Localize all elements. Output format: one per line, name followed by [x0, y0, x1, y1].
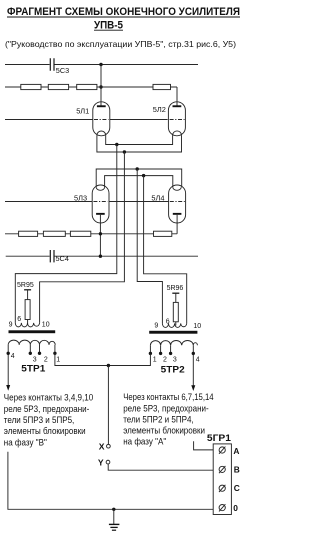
svg-text:тели 5ПР2 и 5ПР4,: тели 5ПР2 и 5ПР4, [123, 413, 194, 424]
svg-text:1: 1 [153, 357, 157, 364]
svg-text:5Л3: 5Л3 [74, 193, 87, 202]
wire v4: L4 node to 5ТР2 pin 10 [144, 176, 187, 324]
5ТР2 bottom winding [150, 340, 197, 345]
wire v3: L3 node to 5ТР2 pin 9 [137, 169, 162, 323]
capacitor C4 (5С4) [50, 250, 69, 263]
node: X tap junction [107, 364, 110, 367]
svg-text:10: 10 [42, 321, 50, 328]
5ТР2 pin 3 tap [170, 345, 172, 353]
node on L1 [123, 150, 126, 153]
wire: 5ТР1 pin1 to 5ТР2 pin1 [55, 353, 150, 365]
5ТР1 pin 4 tap [7, 345, 9, 385]
5ТР2 core [149, 331, 197, 334]
svg-text:5ТР1: 5ТР1 [21, 363, 45, 373]
svg-text:5R95: 5R95 [17, 282, 34, 289]
grid dashes inside 5Л1 [94, 119, 109, 121]
5ТР2 pin 2 tap [160, 345, 162, 353]
svg-text:реле 5Р3, предохрани-: реле 5Р3, предохрани- [123, 402, 209, 413]
node: W3b / 5Л3 anode [99, 232, 102, 235]
terminal X [99, 442, 110, 452]
svg-text:Через контакты 6,7,15,14: Через контакты 6,7,15,14 [123, 391, 213, 402]
5ТР2 pin 4 tap [192, 345, 194, 385]
resistor (W2 #3) [77, 84, 97, 89]
wire: 5Л2 anode riser [176, 87, 178, 106]
node: W1 / 5Л1 anode junction [99, 63, 102, 66]
wire: 5Л4 anode drop [176, 215, 178, 234]
resistor (W2 #1) [21, 84, 41, 89]
wire L1: 5Л1 left cathode to 5Л2 right cathode [97, 135, 182, 152]
resistor (W2 #2) [48, 84, 68, 89]
5ТР1 bottom winding [8, 340, 55, 345]
svg-text:5ГР1: 5ГР1 [207, 433, 231, 443]
wire W1 top bus [5, 64, 198, 66]
svg-text:2: 2 [163, 357, 167, 364]
wire W3b with resistors [5, 233, 177, 235]
node on L2 [115, 143, 118, 146]
svg-text:6: 6 [17, 316, 21, 323]
tube 5Л3 [74, 185, 109, 223]
wire: X feed [107, 366, 109, 445]
terminal C [219, 483, 240, 493]
svg-text:4: 4 [196, 357, 200, 364]
wire L2: 5Л1 right cathode to 5Л2 left cathode [106, 135, 173, 144]
svg-text:реле 5Р3, предохрани-: реле 5Р3, предохрани- [4, 403, 90, 414]
terminal A [219, 446, 239, 456]
wire: 5Л3 anode drop [99, 215, 101, 256]
wire: 5Л1 anode riser [100, 65, 102, 106]
title line 2 [94, 20, 123, 32]
transformer T2 (5ТР2) [149, 285, 202, 391]
resistor R95 (5R95) [24, 289, 31, 291]
svg-text:5R96: 5R96 [167, 285, 184, 292]
transformer T1 (5ТР1) [6, 282, 60, 391]
svg-text:9: 9 [9, 321, 13, 328]
node: W4 / 5Л3 anode [99, 255, 102, 258]
wire L3: 5Л3 left cathode to 5Л4 right cathode [96, 169, 182, 187]
wire L4: 5Л3 right cathode to 5Л4 left cathode [105, 176, 173, 188]
svg-text:ФРАГМЕНТ СХЕМЫ ОКОНЕЧНОГО УСИЛ: ФРАГМЕНТ СХЕМЫ ОКОНЕЧНОГО УСИЛИТЕЛЯ [7, 6, 240, 18]
svg-text:6: 6 [166, 318, 170, 325]
svg-text:В: В [234, 465, 240, 475]
wire W2 with resistors [5, 86, 177, 88]
svg-text:4: 4 [11, 353, 15, 360]
svg-text:10: 10 [193, 323, 201, 330]
title line 1 [7, 6, 240, 18]
wire v2: L1 node to 5ТР1 pin 10 [40, 152, 125, 323]
wire W4 [6, 255, 198, 257]
5ТР1 top winding [15, 323, 39, 327]
tube 5Л4 [151, 185, 185, 223]
node: ground junction [112, 508, 115, 511]
svg-text:5С4: 5С4 [56, 254, 69, 263]
terminal 0 [219, 503, 238, 513]
svg-text:тели 5ПР3 и 5ПР5,: тели 5ПР3 и 5ПР5, [4, 414, 75, 425]
svg-text:X: X [99, 442, 105, 452]
5ТР2 pin 1 tap [149, 345, 151, 353]
5ТР1 pin 3 tap [29, 345, 31, 353]
svg-text:("Руководство по эксплуатации: ("Руководство по эксплуатации УПВ-5", ст… [5, 39, 236, 49]
node on L3 [136, 167, 139, 170]
tube 5Л2 [153, 102, 186, 136]
wire W3c grid bus lower [5, 201, 168, 203]
grid dashes inside 5Л4 [170, 201, 185, 203]
svg-text:5Л4: 5Л4 [151, 193, 164, 202]
5ТР2 top winding [162, 323, 186, 327]
resistor (W3b #1) [19, 231, 38, 236]
svg-text:5С3: 5С3 [56, 66, 69, 75]
resistor (W3b #3) [70, 231, 90, 236]
svg-text:9: 9 [154, 322, 158, 329]
wire: Y to terminal B [108, 464, 219, 470]
resistor (W3b #4) [154, 231, 172, 236]
svg-text:5Л1: 5Л1 [76, 107, 89, 116]
grid dashes inside 5Л2 [170, 119, 185, 121]
ground [109, 509, 120, 530]
svg-text:1: 1 [56, 357, 60, 364]
svg-text:Через контакты 3,4,9,10: Через контакты 3,4,9,10 [4, 392, 93, 403]
terminal B [219, 465, 240, 475]
grid dashes inside 5Л3 [93, 201, 107, 203]
wire: phase B to ground bus [8, 452, 219, 510]
note text right (phase A) [123, 391, 213, 447]
5ТР1 pin 1 tap [54, 345, 56, 353]
node: W2 / 5Л1 anode junction [99, 85, 102, 88]
resistor (W2 #4, to 5Л2 anode) [153, 84, 171, 89]
5ТР1 core [9, 330, 56, 333]
wire: phase A to terminal A [194, 441, 219, 450]
resistor R96 (5R96) [172, 292, 179, 294]
svg-text:Y: Y [98, 458, 104, 468]
node on L4 [142, 174, 145, 177]
svg-text:3: 3 [173, 357, 177, 364]
svg-text:5ТР2: 5ТР2 [161, 364, 185, 374]
terminal block 5ГР1 [207, 433, 232, 515]
svg-text:элементы блокировки: элементы блокировки [123, 425, 205, 436]
resistor (W3b #2) [43, 231, 65, 236]
svg-text:А: А [233, 446, 239, 456]
terminal Y [98, 458, 110, 468]
svg-text:С: С [234, 483, 240, 493]
svg-text:на фазу "А": на фазу "А" [123, 436, 166, 447]
capacitor C3 (5С3) [50, 58, 69, 75]
note text left (phase B) [4, 392, 93, 448]
wire v1: L2 node to 5ТР1 pin 9 [15, 145, 117, 323]
5ТР1 pin 2 tap [39, 345, 41, 353]
svg-text:5Л2: 5Л2 [153, 105, 166, 114]
wire W3 grid bus upper [5, 119, 168, 121]
svg-text:0: 0 [233, 503, 238, 513]
svg-text:элементы блокировки: элементы блокировки [4, 425, 86, 436]
svg-text:на фазу "В": на фазу "В" [4, 436, 47, 447]
tube 5Л1 [76, 102, 110, 136]
